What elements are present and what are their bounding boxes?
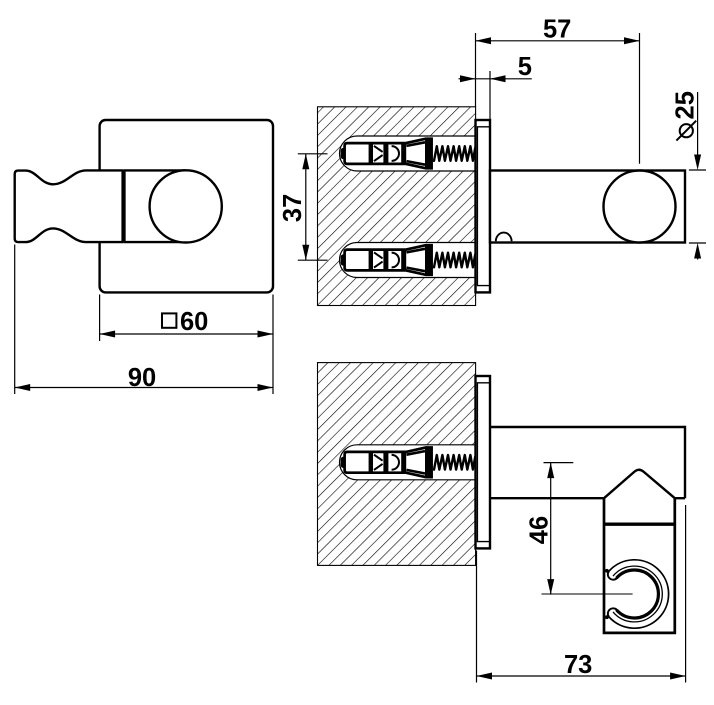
- clip centerline: [542, 593, 633, 595]
- dimension 60 line: [100, 333, 273, 335]
- dimension dia25 ticks: [689, 170, 706, 243]
- dimension 46 ticks: [544, 462, 574, 464]
- svg-text:5: 5: [518, 53, 532, 81]
- clip outer arc: [609, 560, 669, 628]
- dimension 60 extensions: [100, 295, 273, 395]
- bracket divider: [604, 523, 675, 526]
- dimension 90 arrows: [15, 384, 31, 391]
- dimension 90 extension: [14, 245, 16, 395]
- plate lip top view: [477, 127, 490, 286]
- dimension 5 arrows: [460, 75, 476, 82]
- screw anchor S3: [340, 445, 476, 480]
- clip tip cap lower: [608, 608, 618, 617]
- bracket arm top edge: [490, 426, 685, 428]
- bracket peak: [604, 470, 675, 498]
- dimension 37 line: [305, 154, 307, 260]
- holder fork profile: [15, 170, 123, 242]
- bracket step: [675, 497, 685, 499]
- dimension 57 extension right: [639, 33, 641, 164]
- bracket arm right edge: [684, 426, 686, 498]
- svg-text:46: 46: [525, 516, 553, 544]
- dimension dia25 line: [697, 92, 699, 260]
- dimension 73 extensions: [477, 505, 686, 683]
- plate lip bottom view: [477, 383, 490, 542]
- svg-text:90: 90: [128, 364, 156, 392]
- clip mid arc: [613, 566, 662, 622]
- dimension 5 extension: [489, 71, 491, 119]
- screw anchor S1: [340, 136, 476, 171]
- dimension dia25 arrows: [694, 155, 701, 171]
- wall plate side view bottom: [476, 376, 491, 548]
- svg-text:37: 37: [279, 194, 307, 222]
- dimension 37 arrows: [302, 154, 309, 170]
- diameter symbol: [680, 124, 693, 137]
- bracket body: [604, 498, 675, 633]
- cylinder end ball: [604, 171, 676, 243]
- front circle boss: [150, 170, 222, 242]
- dimension 60 arrows: [100, 331, 116, 338]
- bracket arm bottom edge: [490, 497, 604, 499]
- clip tip dot lower: [605, 615, 609, 619]
- wall plate side view top: [476, 120, 491, 292]
- wall section bottom: [318, 363, 476, 566]
- clip inner arc: [617, 570, 658, 618]
- clip tip cap upper: [608, 571, 618, 580]
- screw anchor S2: [340, 243, 476, 278]
- dimension 46 line: [550, 463, 552, 595]
- square symbol: [162, 313, 176, 327]
- dimension 57 line: [476, 40, 640, 42]
- holder collar bar: [122, 170, 125, 242]
- dimension 57 extension left: [475, 33, 477, 107]
- svg-text:73: 73: [564, 651, 592, 679]
- svg-text:25: 25: [672, 91, 700, 119]
- dimension 73 arrows: [477, 673, 493, 680]
- set screw hole: [496, 233, 512, 242]
- clip tip dot upper: [605, 569, 609, 573]
- dimension 46 arrows: [547, 463, 554, 479]
- dimension 90 line: [15, 387, 273, 389]
- svg-text:60: 60: [180, 308, 208, 336]
- front plate square: [100, 120, 273, 292]
- svg-text:57: 57: [543, 16, 571, 44]
- dimension 37 ticks: [298, 154, 328, 260]
- dimension 73 line: [477, 675, 686, 677]
- dimension 5 line: [459, 78, 532, 80]
- wall section top: [318, 107, 476, 306]
- holder cylinder: [490, 171, 685, 243]
- holder tangent lines: [124, 170, 186, 242]
- dimension 57 arrows: [476, 37, 492, 44]
